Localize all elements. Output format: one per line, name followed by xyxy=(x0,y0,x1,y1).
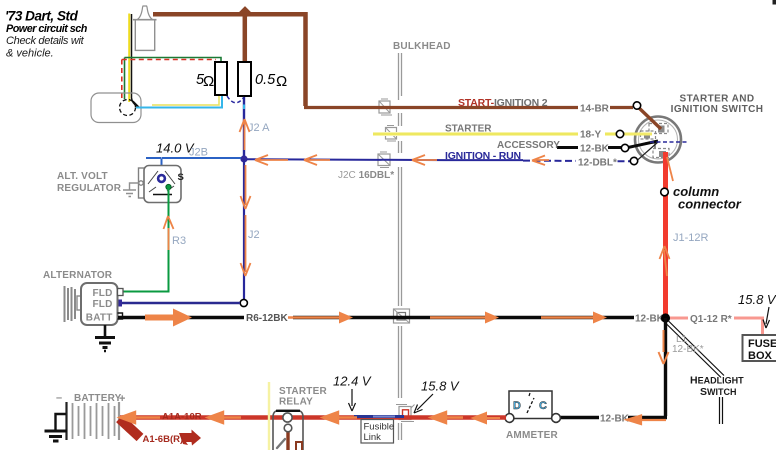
corner mark xyxy=(773,0,776,5)
label 12.4V xyxy=(333,374,372,412)
svg-text:& vehicle.: & vehicle. xyxy=(6,48,54,60)
label J2 xyxy=(248,229,260,241)
svg-text:A1-6B(R): A1-6B(R) xyxy=(143,434,184,445)
node FLD junction xyxy=(240,299,247,306)
wire ballast arc xyxy=(227,96,244,103)
wire Q1-12R pink xyxy=(670,318,763,336)
connector bulkhead red xyxy=(396,405,415,422)
wire yellow stub xyxy=(624,133,652,136)
label 18-Y xyxy=(578,128,605,141)
arrow ammeter left black wire xyxy=(627,416,666,425)
label 12-DBL xyxy=(576,156,617,169)
arrow R3 up xyxy=(164,216,174,250)
wire starter yellow xyxy=(373,132,618,136)
wire yellow coil feed xyxy=(128,14,130,103)
arrows J2 down xyxy=(241,165,251,276)
label 12-BK bus right xyxy=(634,311,665,325)
svg-text:BATTERY: BATTERY xyxy=(74,393,122,404)
arrow L1 down xyxy=(659,330,669,364)
label ALT VOLT REGULATOR xyxy=(57,171,122,194)
wire fusible link navy xyxy=(354,415,404,418)
headlight switch feed xyxy=(665,321,724,425)
label STARTER RELAY xyxy=(279,386,327,408)
arrows J2A up xyxy=(240,119,250,150)
wire J2B blue xyxy=(146,158,241,167)
battery xyxy=(56,392,125,440)
label J2A xyxy=(248,122,270,134)
svg-text:C: C xyxy=(539,400,547,412)
node column connector xyxy=(661,188,669,196)
distributor xyxy=(91,93,141,123)
svg-text:AMMETER: AMMETER xyxy=(506,430,559,441)
label 12-BK xyxy=(578,142,610,155)
arrows ignition-run left xyxy=(255,155,549,165)
svg-text:ALTERNATOR: ALTERNATOR xyxy=(43,270,113,281)
label 12-BK bottom xyxy=(599,411,630,425)
title annotation xyxy=(5,9,88,60)
wire yellow relay xyxy=(268,382,270,450)
label START-IGNITION 2 xyxy=(458,97,548,109)
svg-text:R6-12BK: R6-12BK xyxy=(246,313,288,324)
wire green points xyxy=(125,58,222,100)
node ammeter D xyxy=(505,414,514,423)
wire J2A xyxy=(243,97,245,159)
wire ignition-run xyxy=(247,159,633,161)
arrow J1-12R up xyxy=(660,157,674,276)
svg-text:R3: R3 xyxy=(172,235,186,247)
label Q1-12R xyxy=(688,312,734,325)
node relay terminal 1 xyxy=(283,413,292,422)
wire J1-12R red xyxy=(663,152,668,316)
bulkhead line xyxy=(399,53,402,440)
wire brown to 0.5ohm xyxy=(243,14,248,62)
label Fusible Link xyxy=(361,420,394,444)
node brown junction xyxy=(239,6,252,19)
svg-text:S: S xyxy=(178,172,184,183)
arrow bus right big xyxy=(145,309,192,327)
label 14-BR xyxy=(578,103,610,115)
arrows battery feed left xyxy=(120,412,500,423)
node J2 junction xyxy=(240,155,247,162)
svg-text:REGULATOR: REGULATOR xyxy=(57,183,122,194)
cable A1-6B maroon xyxy=(120,419,202,446)
node circle 18-Y xyxy=(616,130,623,137)
wire red dashed points xyxy=(122,60,216,99)
svg-text:J2C 16DBL*: J2C 16DBL* xyxy=(338,170,394,181)
label AMMETER xyxy=(506,430,559,441)
wire 12-BK down from junction xyxy=(556,318,667,418)
svg-text:J2 A: J2 A xyxy=(248,122,270,134)
label IGNITION-RUN xyxy=(445,150,521,162)
wire R3 green xyxy=(120,189,169,292)
voltage regulator U1 xyxy=(139,166,184,203)
svg-text:Power circuit sch: Power circuit sch xyxy=(6,23,88,35)
svg-text:12-BK: 12-BK xyxy=(600,414,630,425)
svg-text:18-Y: 18-Y xyxy=(580,130,601,141)
wire yellow jumper xyxy=(152,93,219,105)
wire black coil negative xyxy=(132,14,138,107)
wire navy dashed in switch xyxy=(650,141,687,143)
label 14.0V xyxy=(156,141,195,156)
svg-text:Ω: Ω xyxy=(276,73,287,90)
ground alternator xyxy=(95,325,115,351)
svg-text:12.4 V: 12.4 V xyxy=(333,374,372,389)
label ACCESSORY xyxy=(497,140,560,151)
svg-text:RELAY: RELAY xyxy=(279,397,313,408)
wire navy link stub xyxy=(637,142,658,161)
wire brown stub to switch xyxy=(638,107,661,129)
svg-text:BOX: BOX xyxy=(748,350,773,362)
label A1-6B(R) xyxy=(143,434,184,445)
svg-text:START-IGNITION 2: START-IGNITION 2 xyxy=(458,97,548,109)
svg-text:BATT: BATT xyxy=(86,313,113,324)
svg-text:15.8 V: 15.8 V xyxy=(738,292,776,307)
label A1A-10R xyxy=(162,412,202,423)
resistor 0.5 ohm xyxy=(238,62,287,96)
svg-text:Ω: Ω xyxy=(203,73,214,90)
svg-text:15.8 V: 15.8 V xyxy=(421,379,460,394)
node main junction xyxy=(661,313,670,322)
node circle 12-DBL xyxy=(630,157,637,164)
svg-text:Link: Link xyxy=(364,432,382,443)
wire accessory black xyxy=(557,146,623,149)
starter relay xyxy=(273,411,303,450)
svg-text:Q1-12 R*: Q1-12 R* xyxy=(690,314,732,325)
label STARTER xyxy=(445,124,492,135)
svg-text:J2: J2 xyxy=(248,229,260,241)
svg-text:FLD: FLD xyxy=(92,288,112,299)
wire black stub xyxy=(628,141,658,148)
svg-text:Fusible: Fusible xyxy=(364,422,395,433)
svg-text:12-BK: 12-BK xyxy=(635,314,665,325)
svg-text:J1-12R: J1-12R xyxy=(673,232,709,244)
connector bulkhead black xyxy=(394,309,410,323)
label 15.8V bulkhead xyxy=(414,379,460,414)
node ammeter C xyxy=(552,414,561,423)
svg-text:12-BK*: 12-BK* xyxy=(672,344,704,355)
label J1-12R xyxy=(673,232,709,244)
svg-text:J2B: J2B xyxy=(189,147,208,159)
label ALTERNATOR xyxy=(43,270,113,281)
wire J2 to FLD xyxy=(114,300,240,307)
label column connector xyxy=(673,184,742,212)
svg-text:BULKHEAD: BULKHEAD xyxy=(393,41,451,52)
label 15.8V fuse xyxy=(738,292,776,328)
label L1 12-BK xyxy=(672,334,704,355)
fuse box xyxy=(743,335,776,362)
svg-text:FLD: FLD xyxy=(92,299,112,310)
ignition switch xyxy=(635,117,681,163)
svg-text:D: D xyxy=(513,400,521,412)
svg-text:12-BK: 12-BK xyxy=(580,144,610,155)
svg-text:connector: connector xyxy=(678,197,742,212)
ground regulator xyxy=(123,181,143,197)
svg-text:SWITCH: SWITCH xyxy=(700,386,737,398)
wire J2 down xyxy=(243,159,245,303)
wire battery red xyxy=(119,415,506,419)
svg-text:STARTER: STARTER xyxy=(279,386,327,397)
ammeter xyxy=(509,391,552,419)
svg-text:A1A-10R: A1A-10R xyxy=(162,412,202,423)
wire brown main feed xyxy=(153,14,633,107)
resistor 5 ohm xyxy=(196,62,227,95)
wire R6-12BK bus xyxy=(118,316,663,319)
svg-text:0.5: 0.5 xyxy=(255,72,276,88)
ground battery xyxy=(45,414,68,441)
connector bulkhead brown xyxy=(379,99,392,115)
svg-text:HEADLIGHT: HEADLIGHT xyxy=(690,375,744,387)
svg-text:IGNITION SWITCH: IGNITION SWITCH xyxy=(671,104,764,115)
connector bulkhead navy J2C xyxy=(378,152,390,168)
svg-text:'73 Dart, Std: '73 Dart, Std xyxy=(5,9,79,24)
label R3 xyxy=(172,235,186,247)
label Headlight Switch xyxy=(690,375,744,399)
wire cyan xyxy=(136,93,227,108)
svg-text:Check details wit: Check details wit xyxy=(6,35,85,47)
node circle 14-BR xyxy=(633,102,640,109)
label J2C 16DBL xyxy=(338,170,394,181)
connector bulkhead yellow xyxy=(386,126,397,142)
svg-text:ALT. VOLT: ALT. VOLT xyxy=(57,171,108,182)
node relay terminal 2 xyxy=(284,424,292,432)
svg-text:STARTER: STARTER xyxy=(445,124,492,135)
alternator xyxy=(65,283,124,325)
arrows bus right xyxy=(288,312,607,324)
svg-text:14-BR: 14-BR xyxy=(580,104,610,115)
svg-text:–: – xyxy=(56,392,62,404)
svg-text:STARTER AND: STARTER AND xyxy=(680,94,755,105)
svg-text:IGNITION - RUN: IGNITION - RUN xyxy=(445,150,521,162)
ignition coil xyxy=(133,6,157,50)
label R6-12BK xyxy=(244,311,293,325)
node circle 12-BK xyxy=(621,144,628,151)
label J2B xyxy=(189,147,208,159)
svg-text:12-DBL*: 12-DBL* xyxy=(578,158,617,169)
label BULKHEAD xyxy=(393,41,451,52)
label STARTER AND IGNITION SWITCH xyxy=(671,94,764,116)
svg-text:FUSE: FUSE xyxy=(748,338,776,350)
